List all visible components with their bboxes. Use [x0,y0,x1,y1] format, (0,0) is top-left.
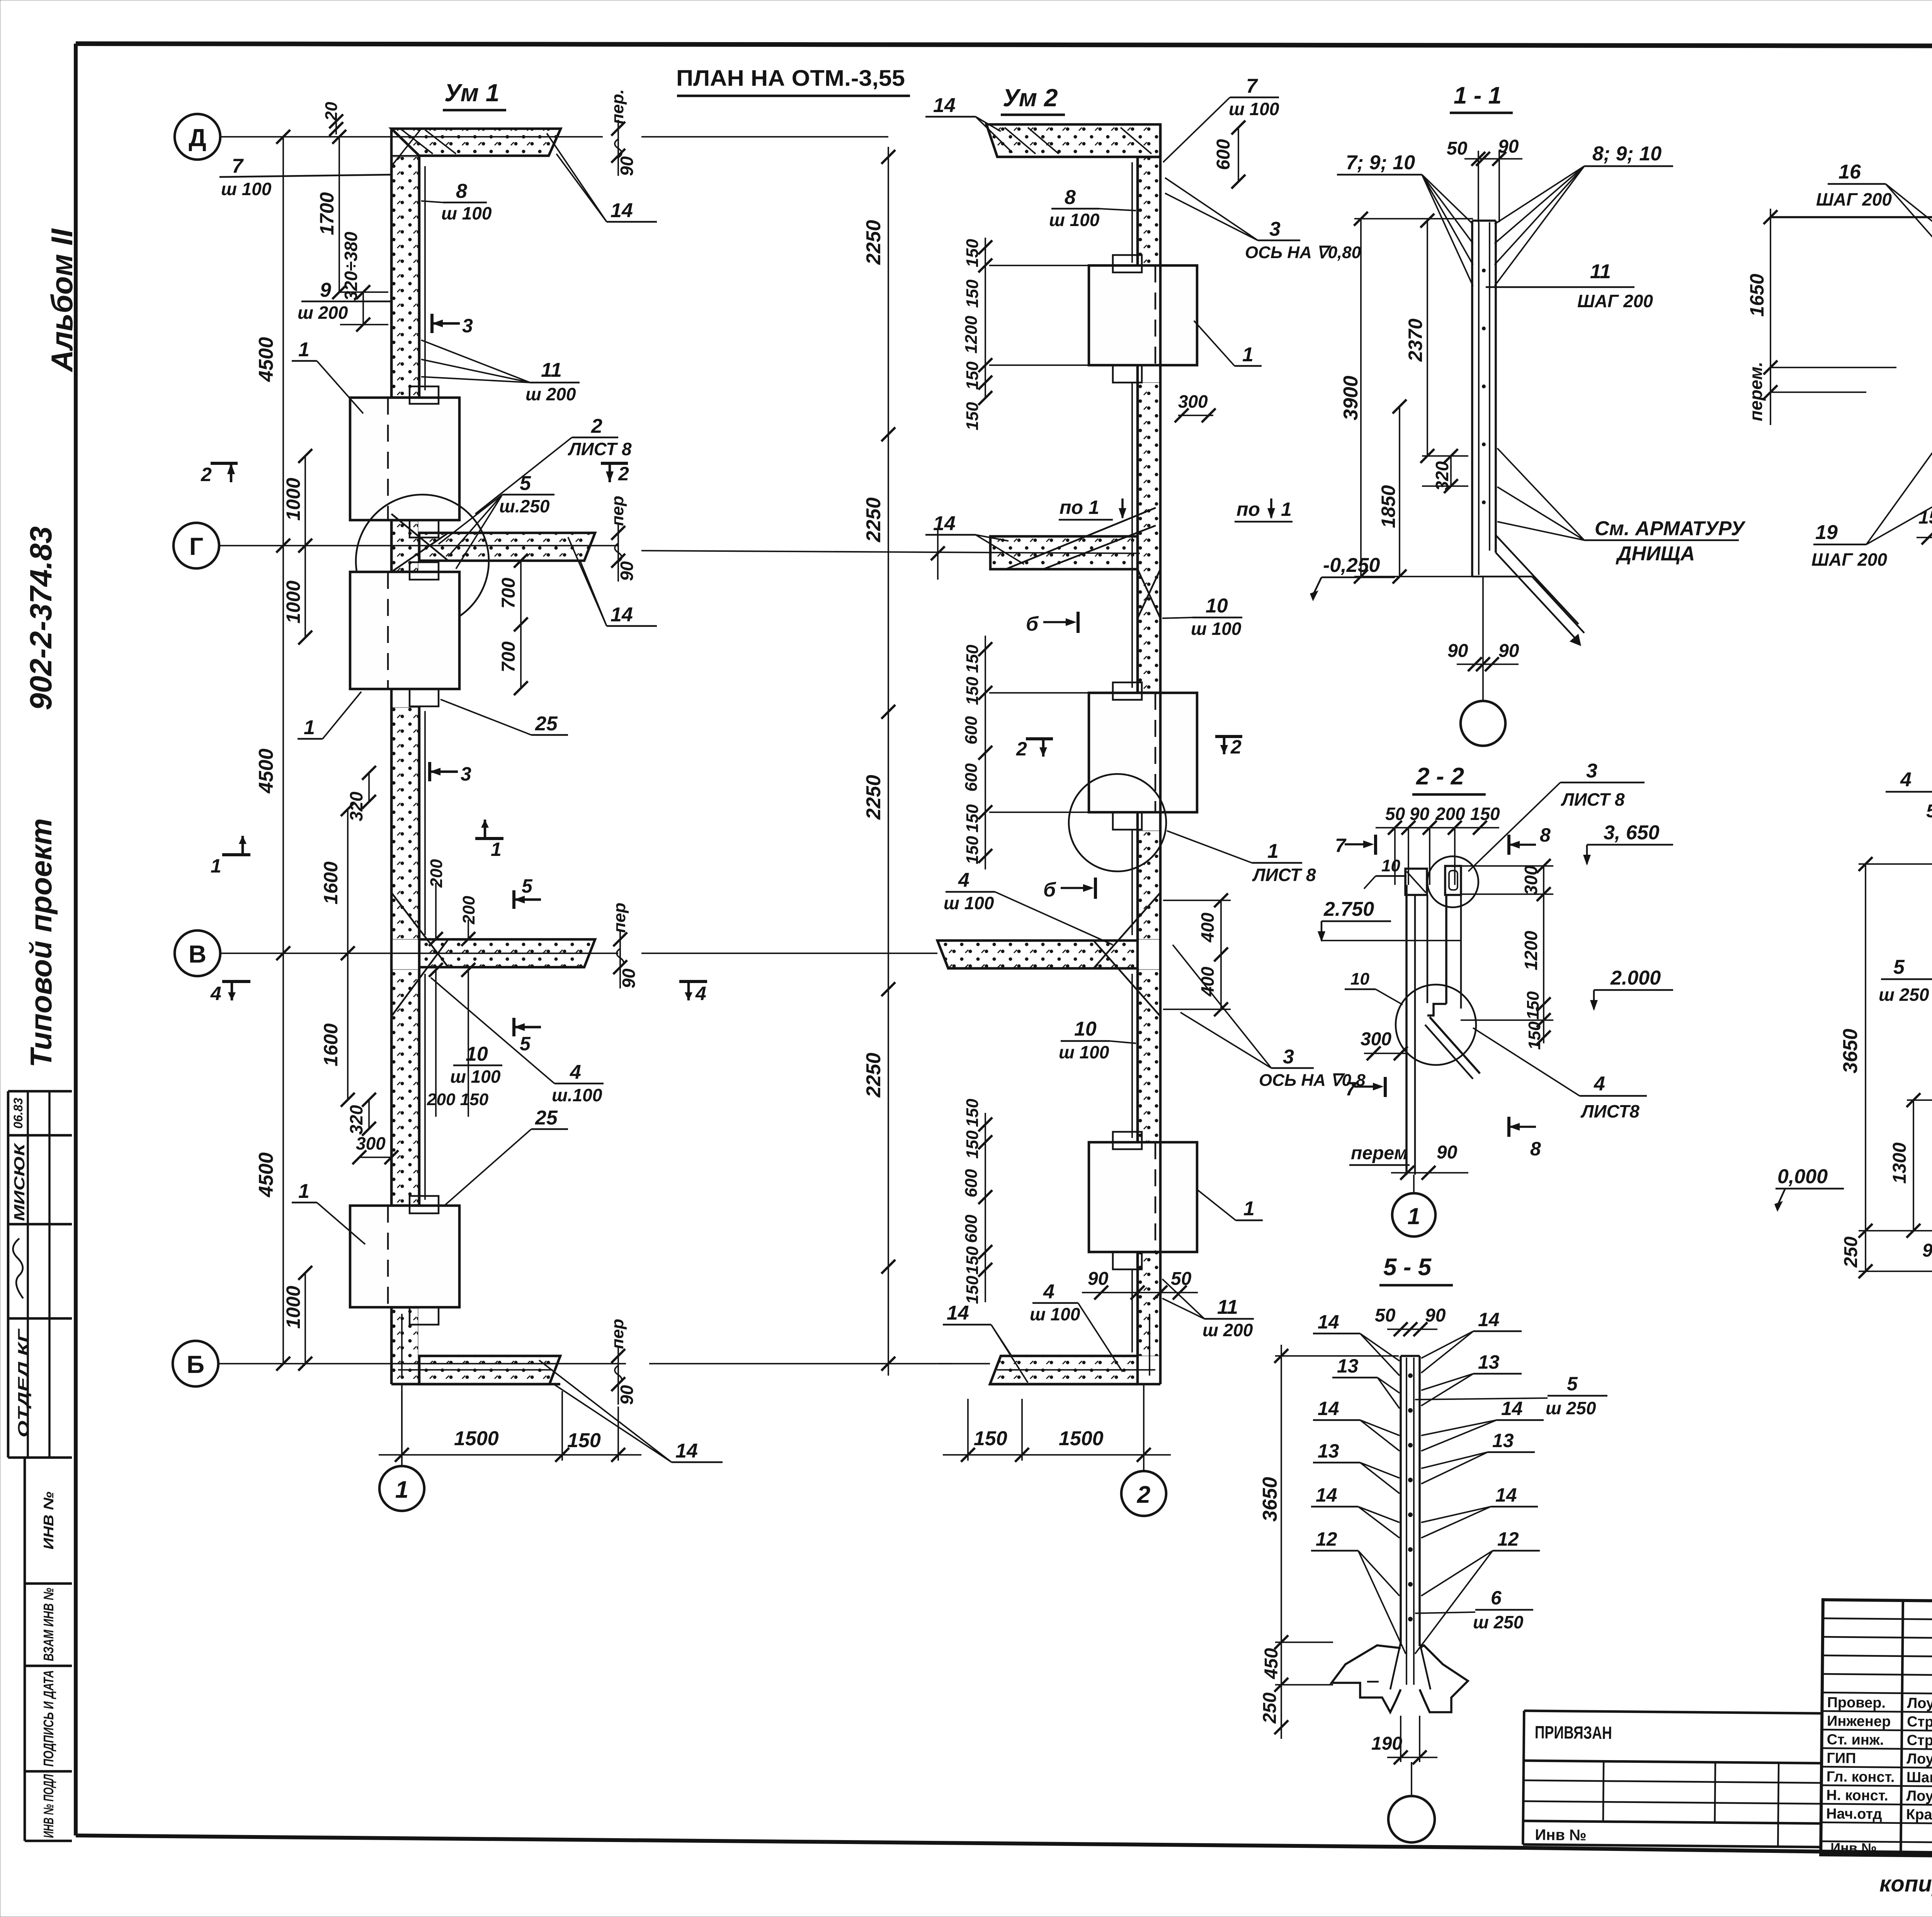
svg-text:13: 13 [1478,1351,1500,1373]
svg-text:ИНВ №: ИНВ № [41,1492,56,1550]
svg-text:5: 5 [520,1033,531,1055]
svg-text:2250: 2250 [862,220,885,265]
svg-text:90: 90 [617,156,637,176]
svg-text:150: 150 [963,1276,982,1304]
svg-text:Альбом II: Альбом II [45,228,79,373]
label 11 sh200 spider [421,340,580,404]
Um2 dims 150/150/600/600/150/150 at block2 [962,636,1088,869]
label 1 block2 [298,692,361,739]
svg-text:1500: 1500 [1059,1427,1104,1450]
svg-text:2250: 2250 [862,775,885,820]
title block stamp [1821,1600,1932,1863]
svg-text:ш 100: ш 100 [1030,1304,1080,1324]
section mark 4 left [210,981,250,1004]
svg-text:06.83: 06.83 [11,1098,25,1129]
svg-text:2: 2 [618,463,629,485]
svg-text:150: 150 [963,1130,982,1159]
4-4 dim 50 top [1926,801,1932,866]
section mark 5 lower [514,1018,541,1055]
2-2 elevation 3,650 [1583,822,1673,866]
svg-text:ВЗАМ ИНВ №: ВЗАМ ИНВ № [41,1588,56,1661]
label 4 sh100 (Um2 bottom) [1030,1281,1122,1372]
svg-text:перем.: перем. [1746,362,1766,421]
svg-text:1: 1 [1242,344,1253,366]
svg-text:4: 4 [1594,1073,1605,1095]
svg-text:600: 600 [962,1169,981,1197]
Um1 block 3 [350,1196,459,1325]
svg-text:10: 10 [1206,595,1228,617]
axis circle 1 [379,1466,424,1511]
svg-text:14: 14 [1501,1398,1523,1419]
svg-text:150: 150 [1525,1021,1544,1050]
2-2 label 10 upper [1364,856,1406,889]
5-5 wall [1390,1356,1430,1689]
svg-text:50: 50 [1447,138,1468,159]
Um1 main dim chain 4500x3 [255,130,290,1371]
axis circle 2 [1121,1471,1166,1516]
svg-text:2250: 2250 [862,497,885,543]
Um2 wall Д to block1 [1132,124,1160,265]
svg-text:Типовой проект: Типовой проект [24,818,58,1068]
svg-text:600: 600 [962,1214,981,1243]
svg-text:ПЛАН НА ОТМ.-3,55: ПЛАН НА ОТМ.-3,55 [676,66,905,91]
svg-text:25: 25 [535,1107,558,1129]
svg-text:10: 10 [1074,1018,1097,1040]
svg-text:3: 3 [462,315,473,337]
svg-text:ш 200: ш 200 [1202,1320,1253,1340]
Um1 wall block2 to В [391,689,425,941]
label 1 block3 [292,1180,365,1244]
dims 700 700 below Г [498,554,528,695]
Um1 dim 1000 at Б [282,1266,312,1371]
svg-text:320: 320 [346,791,366,821]
mark b lower [1043,878,1095,901]
svg-text:90: 90 [1437,1142,1458,1163]
svg-text:МИСЮК: МИСЮК [12,1142,28,1221]
svg-text:50: 50 [1375,1305,1396,1326]
svg-text:14: 14 [1318,1398,1339,1419]
Um2 wall block2 to В [1132,693,1160,1142]
5-5 leader labels left [1311,1311,1406,1654]
label 1 list8 (Um2) [1167,831,1316,885]
axis line 2 to circle [1143,1384,1145,1471]
svg-text:4: 4 [210,983,221,1004]
svg-text:8; 9; 10: 8; 9; 10 [1592,143,1662,165]
svg-text:150: 150 [1524,991,1543,1020]
svg-text:11: 11 [1217,1296,1238,1318]
svg-text:ШАГ 200: ШАГ 200 [1577,291,1653,311]
svg-text:150: 150 [963,836,982,864]
svg-text:8: 8 [1540,824,1551,846]
section mark 1 left [211,836,250,877]
4-4 label 5 sh250 [1879,956,1932,1005]
axis В line [220,953,618,954]
4-4 label 0,000 [1774,1165,1844,1212]
dim 300 [352,1133,398,1164]
dim 1600 above В [320,802,355,960]
dim 320 above [346,766,376,821]
svg-text:90: 90 [1922,1240,1932,1261]
svg-text:3900: 3900 [1340,376,1362,420]
svg-text:3, 650: 3, 650 [1604,822,1660,844]
label 14 (Um2 bottom) [943,1302,1028,1383]
svg-text:5 - 5: 5 - 5 [1383,1254,1432,1281]
axis Б line [218,1363,626,1364]
Um2 Г junction flange (left) [931,508,1160,618]
svg-text:1850: 1850 [1378,485,1399,528]
svg-text:1000: 1000 [282,478,304,520]
svg-text:1: 1 [1281,498,1292,520]
axis line 1 to circle [401,1384,403,1466]
svg-text:Лоуцкер: Лоуцкер [1907,1695,1932,1712]
svg-text:1500: 1500 [454,1427,499,1450]
dims 200/150 near wall [427,859,489,1117]
svg-text:5: 5 [1893,956,1905,978]
svg-text:ш 100: ш 100 [1191,619,1242,639]
svg-text:4500: 4500 [255,1152,277,1197]
svg-text:ш 100: ш 100 [450,1067,501,1087]
svg-text:ПОДПИСЬ И ДАТА: ПОДПИСЬ И ДАТА [41,1670,56,1767]
svg-text:ИНВ № ПОДЛ: ИНВ № ПОДЛ [41,1774,56,1838]
Um1 dim 1700 [316,130,346,299]
Um2 block 3 [1089,1132,1197,1269]
Um2 block 1 [1089,255,1197,383]
svg-text:Инженер: Инженер [1827,1713,1891,1730]
svg-text:Инв №: Инв № [1830,1840,1877,1856]
svg-text:по: по [1236,498,1260,520]
Um2 dims at block3 [962,1099,992,1304]
svg-text:14: 14 [947,1302,969,1324]
svg-text:13: 13 [1492,1430,1514,1451]
2-2 marks 8 [1509,824,1551,1160]
svg-text:12: 12 [1497,1528,1519,1550]
svg-text:150: 150 [963,804,982,833]
axis Д line [220,136,603,138]
svg-text:2: 2 [1137,1482,1150,1508]
svg-text:Н. конст.: Н. конст. [1826,1787,1888,1804]
label 10 sh100 (Um2 lower) [1059,1018,1136,1062]
label 10 sh100 (Um2 upper) [1162,595,1242,639]
svg-text:1700: 1700 [316,192,338,235]
label 5 sh250 spider [439,472,554,569]
svg-text:ШАГ 200: ШАГ 200 [1816,189,1892,209]
svg-text:1: 1 [211,855,221,877]
svg-text:14: 14 [933,94,956,117]
svg-text:7: 7 [1345,1078,1357,1100]
svg-text:14: 14 [1316,1484,1337,1506]
svg-text:90: 90 [1410,804,1430,824]
svg-text:1200: 1200 [1521,930,1541,970]
svg-text:по 1: по 1 [1060,497,1099,518]
svg-text:ш 250: ш 250 [1546,1398,1596,1418]
svg-text:7: 7 [1246,75,1258,97]
2-2 label 3 list8 [1468,760,1645,871]
Um2 block 2 [1089,682,1197,830]
Um2 top flange at Д [986,124,1160,157]
svg-text:5: 5 [522,875,533,897]
axis circle Г [173,523,219,568]
svg-text:Стригина: Стригина [1907,1714,1932,1731]
svg-text:4500: 4500 [255,337,277,382]
svg-text:14: 14 [933,512,956,535]
svg-text:ш 250: ш 250 [1473,1612,1524,1632]
marks po 1 [1059,497,1293,522]
per/90 bracket at Б + label 14 [539,1319,723,1462]
svg-text:1300: 1300 [1889,1142,1910,1184]
svg-text:2: 2 [1230,736,1242,758]
svg-text:3: 3 [1269,218,1281,240]
svg-text:Стронгин: Стронгин [1907,1732,1932,1749]
label 1 block1 [292,338,363,413]
4-4 left dim chain [1839,857,1932,1278]
svg-text:4: 4 [958,869,969,891]
5-5 top dims 50 90 [1375,1305,1446,1336]
svg-text:1000: 1000 [282,1286,304,1328]
svg-text:копировал: Хюппенен: копировал: Хюппенен [1879,1871,1932,1897]
svg-text:1: 1 [1243,1197,1255,1220]
svg-text:5: 5 [520,472,531,495]
Um2 dims 400/400 at В [1163,893,1231,1016]
svg-text:3650: 3650 [1839,1029,1862,1073]
svg-text:ш 250: ш 250 [1879,985,1929,1005]
label 1 (Um2 block1) [1194,321,1262,366]
svg-text:90: 90 [1498,641,1519,661]
svg-text:ш 200: ш 200 [298,303,348,323]
svg-text:ш 100: ш 100 [441,203,492,223]
svg-text:7: 7 [232,155,244,177]
svg-text:190: 190 [1371,1733,1402,1754]
svg-text:14: 14 [611,604,633,626]
svg-text:пер: пер [610,903,629,933]
svg-text:16: 16 [1838,161,1861,183]
svg-text:ЛИСТ 8: ЛИСТ 8 [1252,865,1316,885]
svg-text:1650: 1650 [1746,274,1768,316]
privyazan block [1523,1711,1822,1847]
1-1 top dims 50 90 [1447,136,1522,222]
label 2 list8 [475,415,632,514]
per/90 bracket at В [610,903,639,988]
svg-text:1: 1 [298,1180,310,1203]
svg-text:12: 12 [1316,1528,1337,1550]
svg-text:90: 90 [1447,641,1468,661]
5-5 left dim chain [1259,1345,1399,1739]
left margin stamp column [8,1091,72,1841]
svg-text:150: 150 [963,279,982,308]
svg-text:90: 90 [1498,136,1519,157]
dim 320 below [346,1093,376,1136]
Um2 bottom dim 150/1500 [943,1399,1171,1462]
svg-text:Д: Д [189,124,206,151]
axis Г line [219,545,618,546]
svg-text:пер: пер [608,496,627,526]
3-3 top line [1770,216,1932,218]
svg-text:11: 11 [541,359,562,381]
Um1 block 1 (monolithic panel) [350,386,459,538]
svg-text:Лоуцкер: Лоуцкер [1906,1788,1932,1805]
Um2 dim chain 2250 x4 [862,147,895,1376]
svg-text:14: 14 [611,199,633,222]
Um2 wall block1 to block2 [1132,265,1160,693]
svg-text:150: 150 [963,361,982,390]
svg-text:1600: 1600 [320,1023,342,1066]
label 4 sh100 (Um2) [944,869,1113,945]
svg-text:320÷380: 320÷380 [341,231,361,301]
2-2 bottom perem 90 [1349,1142,1468,1180]
label 4 sh.100 [431,978,604,1105]
section mark 2 right [601,463,629,485]
Um2 Б corner flange (left) [939,1314,1160,1384]
svg-text:ОСЬ НА ∇0,80: ОСЬ НА ∇0,80 [1245,243,1361,262]
svg-text:90: 90 [1088,1269,1109,1289]
svg-text:10: 10 [1381,856,1400,875]
1-1 label 11 shag200 [1486,260,1653,311]
Um1 dim 320-380 [340,231,388,332]
svg-text:700: 700 [498,641,519,672]
svg-text:8: 8 [1530,1138,1541,1160]
Um1 wall segment Д to block1 [391,129,425,398]
label 1 (Um2 block3) [1198,1190,1263,1220]
svg-text:7: 7 [1335,835,1347,856]
svg-text:600: 600 [962,716,981,745]
label 8 sh100 (Um2) [1049,186,1136,230]
svg-text:600: 600 [962,763,981,792]
Um2 В junction flange (left) [937,893,1160,1016]
svg-text:1: 1 [304,716,315,739]
2-2 marks 7 [1335,835,1385,1100]
section mark 1 right [475,820,503,860]
svg-text:Провер.: Провер. [1827,1694,1886,1711]
svg-text:Лоуцкер: Лоуцкер [1906,1751,1932,1767]
svg-text:700: 700 [498,578,519,609]
5-5 footing [1332,1645,1468,1712]
Um1 Г junction flange [356,495,595,628]
svg-text:450: 450 [1261,1648,1282,1679]
svg-text:Ст. инж.: Ст. инж. [1827,1732,1884,1748]
Um1 bottom dim 1500/150 [379,1391,641,1465]
5-5 dim 190 [1371,1716,1437,1764]
svg-text:2.000: 2.000 [1610,967,1661,989]
svg-text:4: 4 [1043,1281,1054,1303]
svg-text:4500: 4500 [255,748,277,794]
svg-text:ШАГ 200: ШАГ 200 [1811,549,1887,570]
Um1 dim 20 top [322,102,343,136]
svg-text:ш 100: ш 100 [944,893,994,913]
svg-text:Гл. конст.: Гл. конст. [1827,1769,1895,1786]
Um2 circled joint detail [1069,774,1166,871]
svg-text:300: 300 [1521,865,1541,895]
3-3 left dim chain [1746,209,1896,425]
svg-text:90: 90 [617,561,637,581]
1-1 leader spider left 7;9;10 [1337,151,1473,286]
svg-text:150: 150 [963,1246,982,1275]
4-4 label 4 [1886,769,1932,1005]
svg-text:ГИП: ГИП [1827,1750,1856,1767]
2-2 axis circle 1 [1413,1175,1415,1192]
section mark 3 upper [432,314,473,337]
svg-text:б: б [1043,879,1056,901]
per/90 bracket at Д [608,89,637,176]
svg-text:1000: 1000 [282,580,304,623]
section 1-1 wall [1472,221,1584,646]
Um1 top flange at Д [391,129,561,166]
3-3 label 19 shag200 [1811,405,1932,570]
left margin rotated titles [24,228,79,1068]
svg-text:3: 3 [1586,760,1597,782]
svg-text:13: 13 [1337,1355,1359,1377]
label 14 at Г flange [568,537,657,626]
Um2 dim 600 top right [1213,121,1245,189]
1-1 dim 320 [1422,449,1468,493]
svg-text:320: 320 [1432,461,1452,491]
Um1 В junction: X brace and flange [391,893,595,1016]
label 14 (Um2 top) [925,94,1012,153]
label 9 sh200 [298,279,391,323]
marks 2 (Um2) [1016,736,1242,760]
svg-text:13: 13 [1318,1440,1339,1462]
axis circle Б [173,1341,218,1386]
svg-text:3650: 3650 [1259,1477,1281,1522]
svg-text:Б: Б [187,1351,204,1378]
2-2 label 10 lower [1345,970,1403,1005]
svg-text:14: 14 [1318,1311,1339,1333]
svg-text:2250: 2250 [862,1053,885,1098]
svg-text:ЛИСТ 8: ЛИСТ 8 [1561,789,1625,810]
svg-text:1 - 1: 1 - 1 [1454,82,1502,109]
svg-text:300: 300 [356,1133,386,1153]
svg-text:50: 50 [1171,1269,1192,1289]
svg-text:Ум 2: Ум 2 [1003,84,1058,112]
svg-text:50: 50 [1385,804,1405,824]
Um1 wall В to block3 [391,967,425,1206]
svg-text:150: 150 [963,1099,982,1127]
section mark 4 right [679,981,707,1004]
svg-text:ЛИСТ 8: ЛИСТ 8 [568,439,632,459]
svg-text:2: 2 [201,464,212,485]
svg-text:1: 1 [395,1476,408,1503]
label 3 os na 0,80 (Um2 top) [1165,178,1361,262]
svg-text:пер.: пер. [608,89,627,124]
svg-text:перем: перем [1351,1143,1408,1163]
svg-text:5: 5 [1567,1373,1578,1395]
1-1 label sm armaturu dnishcha [1497,448,1746,565]
svg-text:150: 150 [974,1427,1007,1450]
svg-text:11: 11 [1590,260,1611,283]
svg-text:8: 8 [456,180,467,202]
svg-text:300: 300 [1178,391,1208,412]
svg-text:150: 150 [963,677,982,705]
svg-text:Ум 1: Ум 1 [444,79,499,107]
svg-text:2: 2 [591,415,602,437]
4-4 bottom dims 90 100 [1922,1236,1932,1271]
svg-text:150: 150 [963,402,982,430]
svg-text:1: 1 [298,338,310,361]
svg-text:14: 14 [1478,1309,1500,1330]
svg-text:8: 8 [1065,186,1076,209]
svg-text:0,000: 0,000 [1777,1165,1828,1188]
section mark 3 lower [430,762,471,785]
axis circle В [175,930,220,976]
svg-text:ш 200: ш 200 [526,384,576,404]
svg-text:Шапиро: Шапиро [1906,1769,1932,1786]
label 25 lower [444,1107,568,1206]
label -0,250 [1310,554,1395,601]
label 14 (Um2 mid) [925,512,1024,564]
svg-text:150: 150 [963,239,982,267]
2-2 elevation 2.000 [1590,967,1673,1011]
svg-text:4: 4 [695,983,706,1004]
1-1 axis circle [1482,577,1484,700]
Um2 dim 300 below block1 [1175,391,1216,422]
